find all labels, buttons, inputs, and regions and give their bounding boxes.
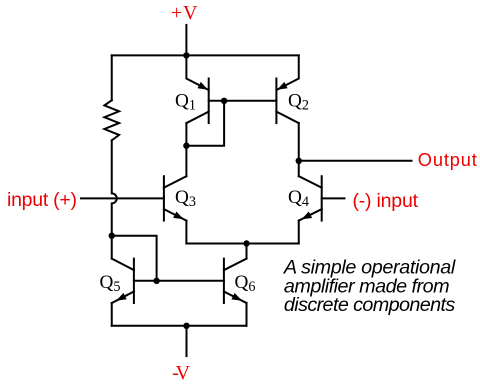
wire top +V rail bbox=[112, 54, 299, 56]
wire bias column upper (rail to resistor) bbox=[111, 55, 113, 100]
wire Q4 emitter drop bbox=[298, 221, 300, 244]
wire bias node to Q5 collector bbox=[111, 236, 113, 259]
wire inverting input lead bbox=[322, 197, 345, 199]
node bottom rail junction bbox=[183, 323, 189, 329]
transistor Q1 (PNP) bbox=[186, 55, 208, 123]
transistor Q4 (NPN) bbox=[299, 176, 322, 220]
svg-text:+V: +V bbox=[171, 2, 198, 24]
transistor Q3 (NPN) bbox=[164, 176, 187, 220]
wire bias node to mirror bases bbox=[112, 236, 157, 281]
svg-text:Q3: Q3 bbox=[175, 187, 196, 210]
svg-text:Q1: Q1 bbox=[175, 90, 196, 113]
svg-text:Q5: Q5 bbox=[100, 272, 121, 295]
wire output node to Q4 collector bbox=[298, 161, 300, 176]
wire -V supply stub bbox=[186, 326, 188, 356]
wire Q1 collector to Q3 collector bbox=[185, 123, 187, 176]
svg-text:Q6: Q6 bbox=[235, 272, 256, 295]
node emitter bus / Q6 collector junction bbox=[243, 240, 249, 246]
svg-text:Q2: Q2 bbox=[288, 90, 309, 113]
svg-text:-V: -V bbox=[172, 362, 191, 384]
wire bottom -V rail bbox=[112, 325, 247, 327]
node Q1 collector tie junction bbox=[183, 143, 189, 149]
wire Q5 emitter drop bbox=[111, 303, 113, 326]
wire noninverting input bbox=[81, 197, 164, 199]
wire Q2 collector to output node bbox=[298, 123, 300, 161]
transistor Q5 (NPN mirror) bbox=[112, 259, 134, 303]
wire Q3 emitter drop bbox=[185, 221, 187, 244]
wire output bbox=[299, 160, 412, 162]
wire Q1-Q2 base bus bbox=[209, 100, 277, 102]
node output junction bbox=[296, 158, 302, 164]
node mirror base junction bbox=[153, 278, 159, 284]
transistor Q2 (PNP) bbox=[276, 55, 298, 123]
wire emitter bus bbox=[186, 243, 298, 245]
svg-text:Output: Output bbox=[418, 150, 477, 170]
node bias / mirror junction bbox=[109, 233, 115, 239]
wire Q1 base-collector tie bbox=[186, 101, 224, 146]
node base bus junction bbox=[221, 98, 227, 104]
wire +V supply stub bbox=[185, 25, 187, 56]
wire Q5-Q6 base bus bbox=[134, 280, 224, 282]
transistor Q6 (NPN mirror) bbox=[224, 259, 247, 303]
node top rail / Q1 emitter junction bbox=[183, 52, 189, 58]
svg-text:input (+): input (+) bbox=[7, 189, 77, 211]
wire Q6 emitter drop bbox=[246, 303, 248, 326]
svg-text:(-) input: (-) input bbox=[353, 190, 419, 212]
svg-text:Q4: Q4 bbox=[288, 187, 309, 210]
wire Q6 collector riser bbox=[246, 244, 248, 259]
resistor R (bias) bbox=[104, 100, 119, 140]
svg-text:discrete components: discrete components bbox=[284, 294, 456, 316]
wire bias column with hop over input wire bbox=[112, 140, 117, 235]
